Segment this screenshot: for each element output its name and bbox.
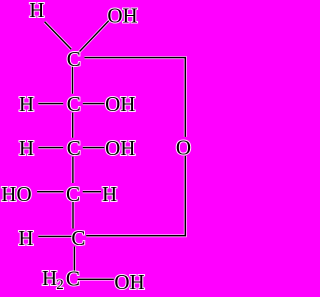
svg-text:2: 2 (56, 277, 64, 293)
bond C2-C3 (71, 113, 74, 138)
bond C5-H (38, 235, 72, 238)
svg-text:O: O (176, 135, 191, 159)
bond C6-OH (78, 278, 114, 281)
svg-text:H: H (19, 136, 34, 160)
bond C1-C2 (71, 66, 74, 94)
ring bond O to C5 (bottom right) (86, 156, 185, 236)
svg-text:C: C (66, 267, 80, 291)
bond C3-C4 (71, 157, 74, 183)
svg-text:H: H (42, 266, 57, 290)
bond C1-OH (diagonal) (78, 19, 111, 53)
svg-text:OH: OH (107, 4, 137, 28)
bond C1-H (diagonal) (45, 22, 72, 49)
bond C4-C5 (72, 202, 75, 229)
svg-text:C: C (67, 92, 81, 116)
bond C2-OH (83, 102, 105, 105)
ring bond C1 to O (top right) (85, 58, 186, 137)
svg-text:HO: HO (1, 182, 31, 206)
svg-text:C: C (67, 47, 81, 71)
svg-text:OH: OH (105, 136, 135, 160)
svg-text:H: H (102, 182, 117, 206)
bond C2-H (38, 102, 63, 105)
svg-text:C: C (67, 136, 81, 160)
svg-text:C: C (66, 182, 80, 206)
svg-text:H: H (19, 92, 34, 116)
svg-text:OH: OH (114, 270, 144, 294)
bond C3-OH (83, 146, 105, 149)
bond C3-H (38, 146, 63, 149)
bond C4-H (83, 190, 101, 193)
svg-text:OH: OH (105, 92, 135, 116)
svg-text:H: H (18, 226, 33, 250)
bond C4-HO (37, 190, 63, 193)
svg-text:C: C (71, 226, 85, 250)
svg-text:H: H (29, 0, 44, 22)
bond C5-C6 (73, 247, 76, 272)
